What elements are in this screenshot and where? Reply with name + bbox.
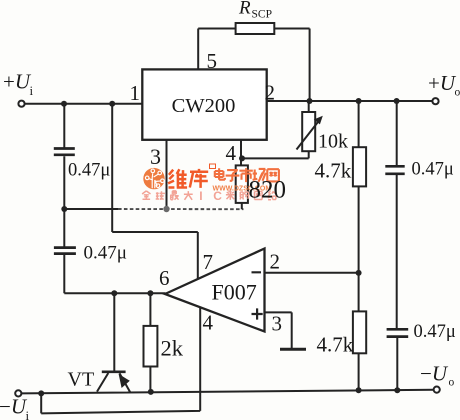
svg-text:0.47μ: 0.47μ	[68, 161, 110, 181]
svg-text:3: 3	[150, 144, 161, 169]
svg-text:i: i	[30, 83, 34, 98]
svg-text:820: 820	[249, 177, 287, 204]
svg-text:CW200: CW200	[172, 95, 236, 117]
svg-text:4.7k: 4.7k	[317, 333, 354, 357]
svg-text:o: o	[449, 377, 455, 389]
svg-text:−U: −U	[420, 362, 449, 386]
svg-text:0.47μ: 0.47μ	[84, 243, 127, 264]
svg-text:i: i	[26, 408, 30, 420]
svg-text:2: 2	[270, 250, 281, 274]
svg-text:0.47μ: 0.47μ	[414, 322, 456, 342]
svg-text:0.47μ: 0.47μ	[412, 160, 454, 180]
svg-text:4: 4	[226, 141, 237, 165]
svg-text:1: 1	[130, 81, 141, 105]
svg-text:10k: 10k	[318, 131, 348, 153]
svg-text:SCP: SCP	[252, 9, 272, 21]
svg-text:+U: +U	[3, 70, 32, 94]
svg-text:o: o	[455, 87, 460, 99]
svg-text:2k: 2k	[161, 336, 184, 361]
svg-text:2: 2	[265, 81, 276, 105]
svg-text:7: 7	[203, 250, 214, 274]
svg-text:VT: VT	[68, 369, 95, 391]
svg-text:−U: −U	[0, 395, 28, 419]
svg-text:4.7k: 4.7k	[315, 159, 352, 183]
svg-text:+U: +U	[428, 71, 457, 95]
svg-text:R: R	[238, 0, 251, 19]
svg-text:F007: F007	[212, 280, 257, 305]
svg-text:5: 5	[207, 49, 218, 73]
svg-text:4: 4	[203, 311, 214, 335]
svg-text:I: I	[199, 189, 202, 203]
svg-text:6: 6	[159, 266, 170, 290]
svg-text:C: C	[213, 189, 222, 203]
svg-text:3: 3	[272, 312, 283, 336]
